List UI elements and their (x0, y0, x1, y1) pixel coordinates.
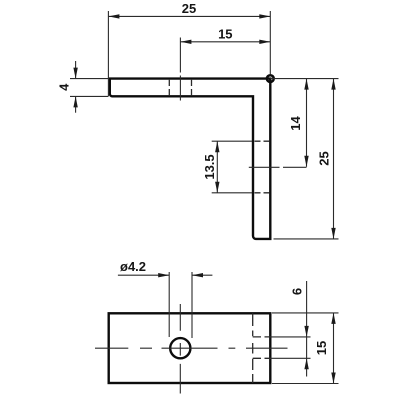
dimension 6: extension line bottom (253, 357, 271, 359)
front view: hole centerline vertical (179, 76, 181, 101)
front view: hidden hole line right (191, 80, 193, 95)
dimension 25 right: arrow up (331, 79, 335, 90)
bottom view: hole circle (170, 338, 190, 358)
leg hole centerline horizontal (249, 166, 280, 168)
dimension dia 4.2: extension line left (168, 272, 170, 337)
dimension 25 top: arrow right (259, 14, 270, 18)
dimension 6: dimension line (306, 281, 308, 377)
front view: hidden hole line left (168, 80, 170, 95)
bottom view: hidden leg line (252, 313, 254, 383)
svg-text:15: 15 (218, 26, 232, 41)
dimension 25 right: dimension line (333, 79, 335, 239)
bottom view: vertical centerline (179, 304, 181, 394)
svg-text:6: 6 (290, 288, 305, 295)
dimension 15 top: extension line left (179, 38, 181, 73)
front view: L-bracket outline (110, 79, 270, 239)
dimension 14 right: dimension line (306, 79, 308, 167)
bottom extension line of leg (274, 238, 339, 240)
svg-text:15: 15 (314, 341, 329, 355)
dimension 15 bottom: arrow up (331, 313, 335, 324)
node: corner reference dot (267, 75, 274, 82)
bottom view: plan rectangle (109, 313, 271, 383)
dimension 4 left: arrow up (73, 96, 77, 107)
dimension 15 bottom: extension line top (272, 312, 339, 314)
dimension 4 left: arrow down (73, 68, 77, 79)
dimension 25 top: extension line right (269, 11, 271, 74)
dimension 4 left: dim line below (75, 96, 77, 112)
svg-text:4: 4 (57, 83, 72, 91)
dimension 13.5: arrow down (215, 182, 219, 193)
dimension 13.5: dimension line (216, 141, 218, 193)
svg-text:14: 14 (288, 116, 303, 131)
svg-text:25: 25 (182, 1, 196, 16)
dimension 14 right: arrow up (304, 79, 308, 90)
dimension 25 right: arrow down (331, 228, 335, 239)
svg-text:13.5: 13.5 (202, 154, 217, 179)
dimension 25 top: arrow left (108, 14, 119, 18)
dimension dia 4.2: leader right with arrow (192, 274, 212, 276)
dimension 25 top: extension line left (107, 11, 109, 97)
dimension 15 top: arrow right (259, 40, 270, 44)
dimension 15 bottom: extension line bottom (272, 383, 339, 385)
leg hidden hole edge bottom: extension + dashes (212, 192, 252, 194)
dimension 13.5: arrow up (215, 141, 219, 152)
svg-text:25: 25 (316, 151, 331, 165)
dimension 25 top: dimension line (108, 15, 270, 17)
dimension 6: arrow down (outside above) (304, 326, 308, 337)
svg-text:ø4.2: ø4.2 (120, 259, 146, 274)
bottom view: horizontal centerline (95, 347, 288, 349)
dimension 4 left: extension line top (70, 78, 108, 80)
dimension 15 bottom: dimension line (333, 313, 335, 384)
dimension 6: arrow up (outside below) (304, 358, 308, 369)
dimension 15 top: dimension line (180, 41, 270, 43)
dimension dia 4.2: extension line right (191, 272, 193, 338)
dimension 15 bottom: arrow down (331, 373, 335, 384)
dimension 14 right: arrow down (304, 156, 308, 167)
leg hidden hole edge top: extension + dashes (212, 140, 252, 142)
dimension 15 top: arrow left (180, 40, 191, 44)
dimension 4 left: dim line above (75, 61, 77, 79)
dimension 6: extension line top (253, 336, 271, 338)
dimension 4 left: extension line bottom (70, 95, 108, 97)
top-right extension line horizontal (270, 78, 338, 80)
dimension dia 4.2: leader left with arrow (118, 274, 169, 276)
